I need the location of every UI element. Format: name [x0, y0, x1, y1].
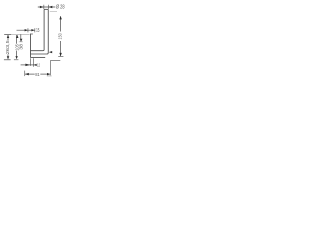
bottom dim1 line: [21, 64, 37, 66]
right top reference tick: [50, 10, 57, 12]
right dim up arrow: [59, 16, 62, 19]
left top reference line light part: [11, 33, 29, 35]
svg-text:263,5: 263,5: [5, 40, 10, 55]
left top reference line dark part: [4, 33, 11, 35]
left dim C up arrow: [16, 35, 19, 38]
left dim A line upper: [7, 35, 9, 40]
post top cap: [44, 8, 48, 10]
top dim extension tick right: [47, 5, 49, 9]
bottom dim1 right arrow: [34, 64, 37, 66]
right dim bottom tick: [58, 55, 63, 57]
plate top tick: [31, 33, 33, 35]
left dim A up arrow: [7, 35, 9, 38]
bottom dim2 line right part: [40, 73, 50, 75]
bottom dim1 extension right: [33, 58, 35, 67]
top dim extension tick left: [43, 5, 45, 9]
bottom dim1 left arrow: [25, 64, 30, 67]
svg-text:Ø 28: Ø 28: [56, 4, 65, 10]
bottom right L extension horizontal: [50, 60, 60, 62]
bottom dim2 right arrow: [47, 73, 50, 76]
15 dim tick 2: [34, 28, 36, 32]
left dim B down arrow: [20, 39, 23, 42]
wall plate left edge: [30, 34, 32, 58]
bottom right L extension vertical: [49, 61, 51, 76]
plate bottom line: [31, 56, 46, 58]
15 dim tick 1: [27, 28, 29, 32]
left dim C line lower: [16, 51, 18, 57]
top dimension line: [38, 6, 56, 8]
left bottom tick right part: [14, 59, 19, 61]
bottom dim2 right small tick: [47, 75, 52, 77]
svg-text:81: 81: [35, 72, 40, 78]
15 dim line: [17, 29, 35, 31]
svg-text:38: 38: [18, 43, 23, 49]
post right edge with bend into arm bottom: [31, 9, 49, 54]
right dimension line upper: [60, 16, 62, 31]
arm leader arrow: [49, 51, 52, 53]
bottom dim2 line left part: [25, 73, 35, 75]
svg-text:150: 150: [58, 33, 63, 40]
right dimension line lower: [60, 41, 62, 56]
left dim C line upper: [16, 35, 18, 44]
bottom dim1 extension left: [29, 58, 31, 66]
left dim B bottom tick: [19, 41, 23, 43]
bottom dim2 left arrow: [25, 73, 29, 76]
post left edge with bend into arm top: [31, 9, 44, 50]
svg-text:15: 15: [36, 28, 39, 34]
left dim B line: [20, 34, 22, 41]
left dim A line lower: [7, 54, 9, 56]
left bottom tick dark part: [4, 59, 11, 61]
svg-text:12: 12: [37, 62, 40, 67]
left dim C down arrow: [15, 56, 17, 59]
bottom dim2 tick left: [24, 71, 26, 77]
top dim left arrow: [40, 6, 44, 9]
left dim A down arrow: [7, 56, 9, 59]
right dim down arrow: [59, 53, 62, 56]
15 dim arrow 2: [31, 29, 34, 31]
top dim right arrow: [49, 6, 53, 9]
15 dim arrow 1: [25, 29, 28, 31]
